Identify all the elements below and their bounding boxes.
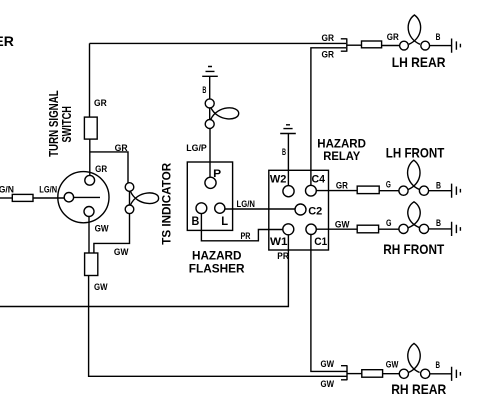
connector on RH FRONT wire <box>357 225 378 233</box>
wire GR top bus <box>90 42 347 44</box>
wire B LH FRONT lamp to ground <box>429 190 452 192</box>
wire LG/N to switch <box>33 197 64 199</box>
svg-text:PR: PR <box>277 251 289 262</box>
earth ground (relay W2) <box>280 125 296 134</box>
chassis ground (LH FRONT) <box>452 184 461 198</box>
connector on RH REAR wire <box>362 370 383 378</box>
svg-text:B: B <box>436 218 441 229</box>
wire B RH REAR lamp to ground <box>430 373 452 375</box>
bullet connector (top, 2-way) <box>341 38 347 51</box>
svg-text:GR: GR <box>322 33 335 44</box>
svg-text:GR: GR <box>115 143 128 154</box>
bullet connector (bottom, 2-way) <box>341 365 347 380</box>
svg-text:RELAY: RELAY <box>323 151 360 163</box>
wire PR bus to relay W1 <box>0 235 288 307</box>
wire GW relay C1 down to connector <box>311 235 347 372</box>
wire B pilot lamp to earth <box>209 76 211 99</box>
svg-text:GW: GW <box>321 379 335 390</box>
LH REAR lamp left terminal <box>400 41 409 50</box>
wire LG/N input <box>0 197 12 199</box>
wire B RH FRONT lamp to ground <box>429 228 452 230</box>
svg-text:LG/P: LG/P <box>186 143 207 154</box>
LH FRONT lamp right terminal <box>419 186 428 195</box>
wire GR relay C4 up to connector <box>311 48 346 186</box>
pilot lamp wire between terminals <box>209 108 211 120</box>
hazard flasher terminal B <box>196 203 207 214</box>
svg-text:B: B <box>282 147 286 158</box>
svg-text:FLASHER: FLASHER <box>189 264 246 276</box>
LH FRONT lamp left terminal <box>399 186 408 195</box>
svg-text:B: B <box>436 180 441 191</box>
svg-text:GW: GW <box>94 282 108 293</box>
chassis ground (LH REAR) <box>452 39 461 53</box>
svg-text:ER: ER <box>0 33 14 49</box>
RH REAR lamp left terminal <box>399 369 408 378</box>
TS indicator lamp bottom terminal <box>125 205 134 214</box>
RH FRONT lamp bulb <box>408 202 420 228</box>
svg-text:LG/N: LG/N <box>237 199 256 210</box>
TS indicator lamp top terminal <box>125 183 134 192</box>
svg-text:P: P <box>213 168 221 180</box>
svg-text:G: G <box>386 180 391 191</box>
wire GR connector to switch terminal <box>89 139 91 176</box>
wire G to RH FRONT lamp <box>379 228 399 230</box>
svg-text:C2: C2 <box>308 205 322 217</box>
svg-text:GR: GR <box>387 32 399 43</box>
LH REAR lamp bulb <box>408 15 420 44</box>
wire GR vertical drop from top bus <box>89 43 91 117</box>
svg-text:GR: GR <box>94 98 107 109</box>
wire GR branch to TS indicator <box>90 152 128 183</box>
RH FRONT lamp right terminal <box>419 224 428 233</box>
LH REAR lamp right terminal <box>421 41 430 50</box>
wire GR relay C4 to LH FRONT <box>316 190 357 192</box>
svg-text:B: B <box>192 216 200 228</box>
wire B LH REAR lamp to ground <box>430 45 452 47</box>
wire GW relay C1 to RH FRONT <box>316 228 357 230</box>
svg-text:RH FRONT: RH FRONT <box>383 241 444 257</box>
connector on GR wire <box>84 117 97 139</box>
hazard flasher terminal P <box>205 177 216 188</box>
hazard relay terminal C4 <box>306 185 317 196</box>
TS indicator lamp wire between terminals <box>129 191 131 205</box>
TS indicator lamp bulb (leaf with crossing) <box>131 192 159 205</box>
connector on LH REAR wire <box>362 41 382 48</box>
wire LG/N flasher L to relay C2 <box>225 208 295 210</box>
hazard relay terminal C1 <box>306 224 316 234</box>
svg-text:B: B <box>202 85 206 96</box>
svg-text:LG/N: LG/N <box>0 184 14 195</box>
wire GW long run to RH REAR <box>89 276 347 377</box>
wire GW to RH REAR lamp <box>383 373 400 375</box>
svg-text:B: B <box>436 32 441 43</box>
svg-text:GR: GR <box>95 164 107 175</box>
chassis ground (RH FRONT) <box>452 222 461 236</box>
svg-text:TS INDICATOR: TS INDICATOR <box>159 162 173 244</box>
wire GW switch to connector <box>88 217 90 254</box>
hazard relay terminal C2 <box>295 204 306 215</box>
pilot lamp bulb <box>211 107 239 119</box>
svg-text:SWITCH: SWITCH <box>60 106 74 143</box>
svg-text:G: G <box>386 218 392 229</box>
svg-text:HAZARD: HAZARD <box>192 251 242 263</box>
turn signal switch wiper <box>74 196 100 198</box>
svg-text:HAZARD: HAZARD <box>317 138 366 150</box>
svg-text:GW: GW <box>321 359 335 370</box>
svg-text:LH FRONT: LH FRONT <box>386 144 445 160</box>
svg-text:LH REAR: LH REAR <box>392 54 446 70</box>
svg-text:L: L <box>221 216 228 228</box>
fuse/connector on LG/N wire <box>12 194 33 201</box>
svg-text:TURN SIGNAL: TURN SIGNAL <box>47 90 61 157</box>
RH REAR lamp right terminal <box>421 369 430 378</box>
pilot lamp bottom terminal <box>205 120 214 129</box>
hazard flasher box <box>187 162 232 230</box>
svg-text:LG/N: LG/N <box>39 185 57 196</box>
svg-text:GW: GW <box>335 220 350 231</box>
svg-text:C1: C1 <box>314 236 327 248</box>
wire B relay W2 to earth <box>287 134 289 186</box>
wire GW connector to RH REAR lamp <box>347 373 362 375</box>
earth ground (pilot lamp) <box>202 67 218 77</box>
RH FRONT lamp left terminal <box>399 224 408 233</box>
connector on GW wire <box>85 253 98 276</box>
wire GR connector to LH REAR lamp <box>347 44 362 46</box>
connector on LH FRONT wire <box>357 186 379 194</box>
svg-text:C4: C4 <box>312 174 326 186</box>
wire GW TS indicator down to connector <box>94 214 130 253</box>
wire G to LH FRONT lamp <box>379 190 399 192</box>
wire GR to LH REAR lamp <box>382 45 400 47</box>
turn signal switch body <box>58 172 109 223</box>
svg-text:W2: W2 <box>270 174 287 186</box>
svg-text:PR: PR <box>241 231 251 242</box>
svg-text:GW: GW <box>114 247 129 258</box>
turn signal switch terminal GR (top) <box>85 175 95 185</box>
svg-text:GW: GW <box>95 224 109 235</box>
wire PR flasher B to relay W1 <box>201 214 283 241</box>
pilot lamp top terminal <box>205 99 214 108</box>
svg-text:GR: GR <box>322 50 335 61</box>
turn signal switch terminal LG/N (left) <box>64 193 73 202</box>
hazard flasher terminal L <box>215 203 225 213</box>
chassis ground (RH REAR) <box>452 367 461 381</box>
svg-text:GW: GW <box>386 360 399 371</box>
svg-text:RH REAR: RH REAR <box>391 381 446 397</box>
hazard relay terminal W1 <box>283 224 294 235</box>
svg-text:W1: W1 <box>270 236 288 248</box>
hazard relay box <box>269 170 329 250</box>
wire LG/P flasher P to pilot lamp <box>209 129 211 178</box>
svg-text:B: B <box>436 360 441 371</box>
svg-text:GR: GR <box>336 180 348 191</box>
LH FRONT lamp bulb <box>408 160 420 189</box>
turn signal switch terminal GW (bottom) <box>84 207 94 217</box>
hazard relay terminal W2 <box>283 186 294 197</box>
RH REAR lamp bulb <box>408 343 420 372</box>
